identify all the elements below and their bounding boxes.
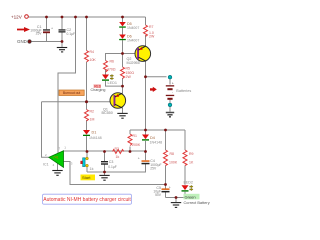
junction node bottom gnd (175, 196, 178, 199)
svg-text:R2: R2 (90, 110, 95, 114)
svg-text:1N4007: 1N4007 (127, 26, 139, 30)
wire sense line y130 (130, 129, 185, 131)
svg-text:R4: R4 (90, 50, 95, 54)
wire Q2 collector column (145, 61, 147, 130)
svg-text:C3: C3 (109, 160, 114, 164)
label RED Charging (94, 84, 101, 88)
svg-text:Automatic NI-MH battery charge: Automatic NI-MH battery charger circuit (43, 197, 131, 203)
capacitor C4 (138, 156, 162, 170)
wire op-amp V- to ground (57, 164, 59, 171)
wire bottom ground stub (175, 198, 177, 203)
ground bottom right (171, 203, 181, 208)
transistor Q2 (127, 46, 151, 65)
svg-text:1N4148: 1N4148 (150, 140, 163, 144)
resistor R1 (128, 134, 132, 145)
junction node R8 top (164, 129, 167, 132)
wire +12V jog to op-amp V+ (58, 17, 76, 153)
junction node R1 bottom (129, 150, 132, 153)
svg-text:R7: R7 (149, 25, 154, 29)
wire R6 LED1 branch (106, 70, 123, 86)
wire gnd rail (31, 41, 62, 43)
wire battery feed (146, 76, 167, 78)
wire top rail (28, 16, 146, 18)
svg-text:25V: 25V (150, 166, 157, 170)
svg-text:R8: R8 (170, 152, 175, 156)
resistor R9 (183, 150, 187, 165)
trimmer VR1 (80, 157, 93, 171)
svg-text:Burnout out: Burnout out (63, 91, 81, 95)
wire op-amp out line to C4 (64, 150, 146, 152)
svg-text:10K: 10K (90, 58, 97, 62)
junction node D5 top (121, 16, 124, 19)
svg-text:D4: D4 (150, 136, 155, 140)
wire C2 column (61, 17, 63, 47)
svg-text:1k: 1k (90, 167, 94, 171)
label Start (81, 175, 96, 181)
wire R5 branch (122, 54, 124, 87)
wire battery column (169, 79, 171, 112)
title box (43, 194, 132, 204)
svg-text:2W: 2W (149, 34, 155, 38)
junction node C1 top (45, 16, 48, 19)
resistor R6 (104, 61, 108, 72)
wire Q2 base node left to R6 (106, 54, 123, 61)
svg-text:1N4148: 1N4148 (89, 136, 102, 140)
svg-text:R5: R5 (126, 67, 131, 71)
label Burnout out (59, 90, 84, 96)
junction node C3 gnd (103, 171, 106, 174)
svg-text:+: + (169, 186, 171, 190)
ground under op-amp (52, 171, 62, 176)
diode D6 (119, 35, 139, 43)
resistor R5 (121, 67, 125, 78)
wire C3 column (104, 152, 106, 176)
svg-text:Green: Green (185, 194, 196, 199)
terminal GND (28, 40, 32, 44)
diode D1 (83, 130, 102, 140)
svg-text:+: + (51, 27, 53, 31)
junction node A Q1 base (85, 100, 88, 103)
resistor R8 (164, 150, 168, 165)
diode D5 (119, 22, 139, 30)
wire VR1 column (87, 152, 105, 173)
junction node Q2 base (121, 52, 124, 55)
svg-text:LED1: LED1 (108, 81, 118, 85)
svg-text:200K: 200K (132, 143, 141, 147)
svg-text:IC1: IC1 (43, 163, 49, 167)
svg-text:Charging: Charging (91, 88, 106, 92)
capacitor C2 (59, 28, 76, 36)
LED1 (102, 74, 117, 84)
capacitor C5 (153, 186, 171, 197)
wire R8 column (165, 130, 167, 198)
battery (166, 75, 192, 107)
junction node C2 top (61, 16, 64, 19)
ground under C3 (99, 175, 109, 180)
ground under Q1 (117, 113, 127, 118)
svg-text:Batteries: Batteries (176, 89, 191, 93)
svg-text:1M: 1M (90, 117, 95, 121)
junction node R4 top (85, 16, 88, 19)
wire R7 column (145, 17, 147, 46)
svg-text:741: 741 (53, 156, 59, 160)
ground under C2 (57, 48, 67, 52)
junction node LED1 / Q1 collector (121, 85, 124, 88)
junction node R8 rail (164, 183, 167, 186)
svg-text:+: + (172, 81, 174, 85)
transistor Q1 (102, 93, 126, 116)
wire R9 LED2 column (184, 130, 186, 185)
op-amp IC1 (43, 146, 73, 168)
diode D4 (142, 135, 162, 145)
svg-text:MJ2955: MJ2955 (127, 61, 140, 65)
svg-text:+: + (138, 156, 140, 160)
svg-text:1N4007: 1N4007 (127, 38, 139, 42)
junction node C2 gnd (61, 40, 64, 43)
wire op-amp feedback L to bottom rail (64, 162, 166, 185)
svg-text:Correct Battery: Correct Battery (184, 200, 210, 205)
junction node V+ branch (74, 16, 77, 19)
svg-text:0.1µF: 0.1µF (67, 32, 76, 36)
junction node D4 C4 (144, 150, 147, 153)
svg-text:1K: 1K (189, 161, 194, 165)
junction node D4 top (144, 129, 147, 132)
resistor R3 (113, 150, 124, 154)
wire Q1 emitter to ground (122, 108, 124, 113)
capacitor C3 (101, 160, 117, 169)
svg-text:R1: R1 (133, 134, 138, 138)
svg-text:BC550: BC550 (102, 111, 113, 115)
svg-text:100K: 100K (169, 161, 178, 165)
wire C4 column (105, 152, 146, 173)
svg-text:470Ω: 470Ω (107, 67, 116, 71)
svg-text:25V: 25V (36, 32, 43, 36)
wire Q1 collector (122, 86, 124, 93)
terminal +12V (25, 15, 29, 19)
junction node VR1 top (86, 150, 89, 153)
junction node C3 top (103, 150, 106, 153)
svg-text:-: - (172, 91, 173, 95)
svg-text:0.1µF: 0.1µF (108, 165, 117, 169)
label Green / Correct Battery (184, 194, 200, 200)
svg-text:2W: 2W (126, 75, 132, 79)
wire node A column (R4/R2/D1) (86, 17, 88, 152)
svg-text:1k: 1k (116, 155, 120, 159)
svg-text:50V: 50V (155, 193, 162, 197)
LED2 (182, 181, 194, 192)
arrow input (17, 27, 30, 32)
capacitor C1 (30, 25, 53, 36)
svg-text:GND: GND (17, 39, 27, 44)
svg-text:R9: R9 (189, 152, 194, 156)
resistor R7 (144, 25, 148, 37)
wire D5 D6 column to Q2 base (123, 17, 138, 54)
wire Q1 base line (42, 102, 112, 158)
wire D4 column (145, 130, 147, 152)
svg-text:+12V: +12V (11, 14, 23, 19)
svg-text:Start: Start (82, 175, 91, 180)
svg-text:LED2: LED2 (184, 181, 194, 185)
arrow batteries (150, 87, 157, 92)
wire C5 bottom line (166, 192, 186, 198)
ground under battery (166, 113, 174, 117)
wire R1 column (129, 130, 131, 152)
resistor R2 (85, 110, 89, 121)
svg-text:R3: R3 (115, 147, 120, 151)
svg-text:D1: D1 (92, 131, 97, 135)
junction node battery feed (144, 75, 147, 78)
resistor R4 (85, 51, 89, 63)
wire C1 column (46, 17, 48, 42)
svg-text:R6: R6 (110, 60, 115, 64)
